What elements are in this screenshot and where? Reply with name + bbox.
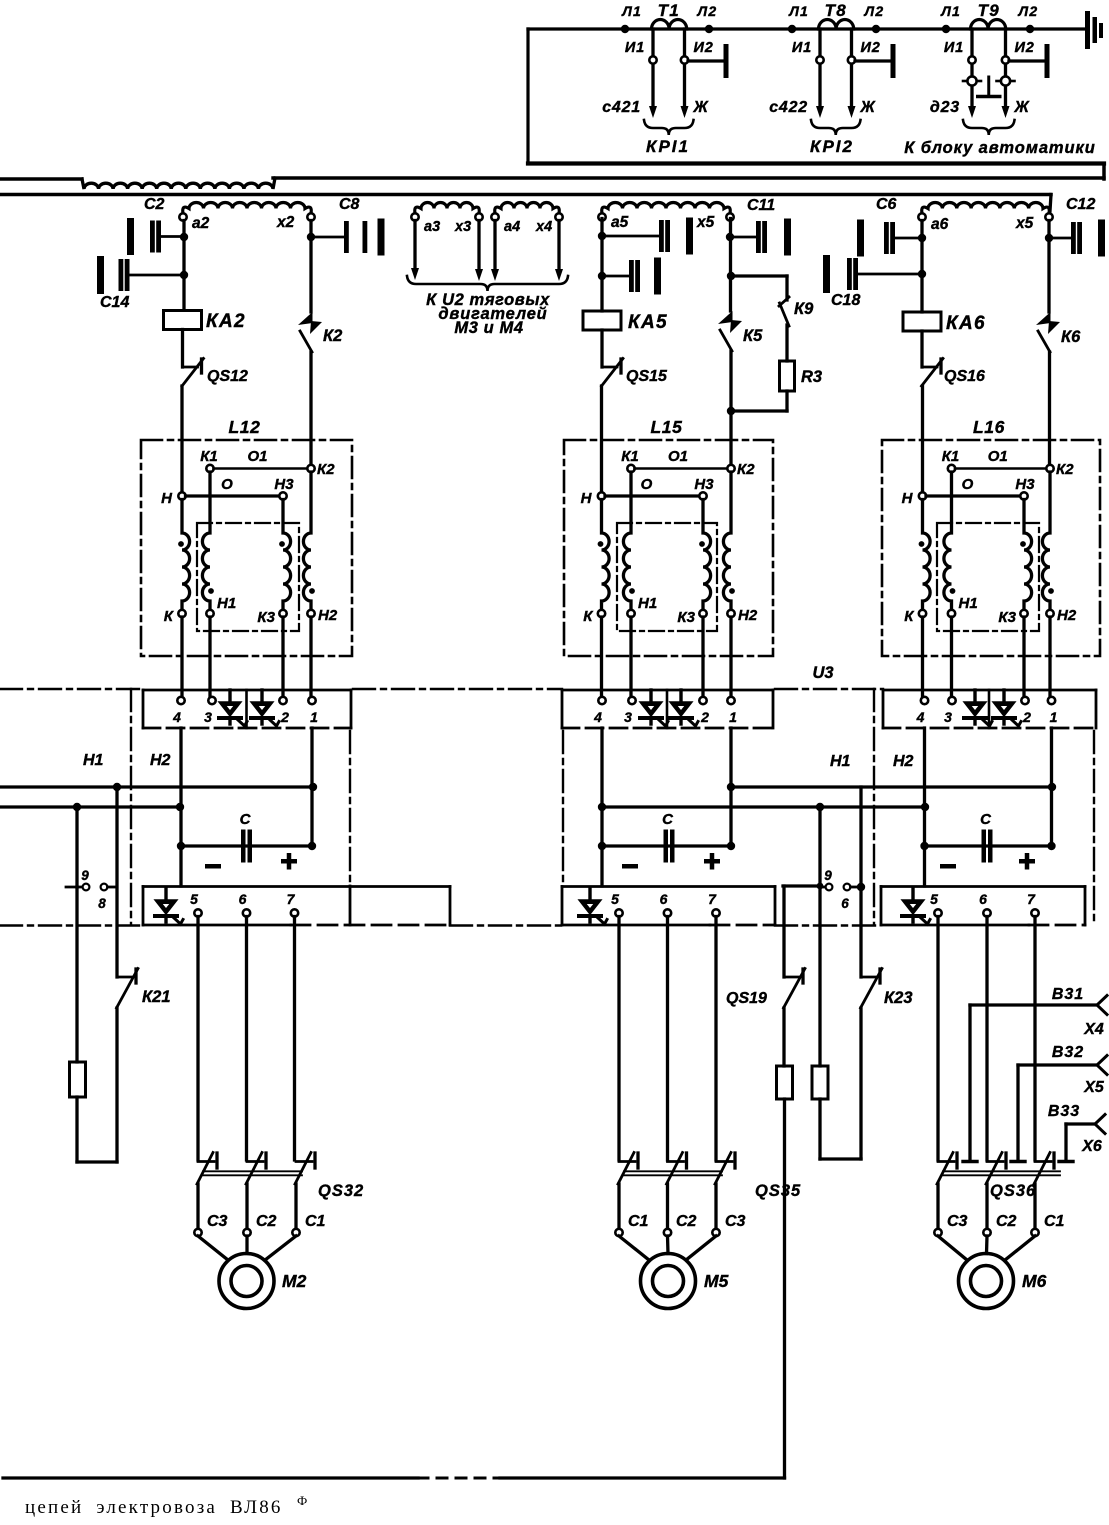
svg-text:О1: О1 [668, 448, 688, 465]
wire: resistor to loop bottom [818, 1099, 821, 1159]
svg-text:Н2: Н2 [150, 752, 171, 769]
wire: K23 down [859, 1008, 862, 1159]
wire K5 to L15 [729, 351, 732, 465]
wire K6 to L16 [1048, 352, 1051, 465]
svg-text:Н1: Н1 [83, 752, 104, 769]
wire: QS19 to resistor [782, 1008, 785, 1066]
svg-text:С12: С12 [1066, 196, 1095, 213]
boundary chain line between units 1-2 [353, 688, 562, 690]
svg-text:К2: К2 [323, 327, 342, 345]
svg-text:2: 2 [700, 709, 709, 725]
output arrows of Т1 [649, 106, 657, 118]
svg-text:а5: а5 [611, 214, 629, 231]
wire: 820 branch from minus line [818, 807, 821, 886]
winding 2 of L15 [623, 472, 631, 610]
U-left minus label [205, 864, 221, 869]
secondary lead И2 of Т9 [1004, 29, 1007, 106]
wires L16 to rectifier terminals [921, 617, 924, 697]
capacitor C18 [823, 255, 830, 293]
svg-text:КРI1: КРI1 [646, 137, 690, 156]
svg-text:х2: х2 [276, 214, 295, 231]
secondary lead И1 of Т9 [970, 29, 973, 106]
svg-text:И1: И1 [625, 40, 645, 56]
svg-text:Т9: Т9 [978, 1, 1000, 20]
svg-text:В31: В31 [1052, 986, 1084, 1003]
wire: resistor down to bottom bus [783, 1099, 786, 1478]
svg-text:С1: С1 [1044, 1213, 1065, 1230]
wire: main line to current transformers [528, 27, 1086, 30]
U3-mid bottom terminal box [562, 885, 775, 888]
svg-text:9: 9 [824, 868, 832, 883]
node Л2 of Т1 [705, 25, 713, 33]
U-left bottom terminal box [143, 885, 450, 888]
U3-right cell divider [988, 690, 991, 728]
wire x5-right down to K6 [1047, 221, 1050, 313]
U3-right bottom thyristor [911, 888, 914, 901]
svg-text:О1: О1 [247, 448, 267, 465]
U3-right terminal 1 [1048, 697, 1055, 704]
U-left thyristor-module top box [143, 689, 351, 692]
U3-mid capacitor C row [602, 844, 731, 847]
svg-text:Ж: Ж [693, 99, 710, 116]
connector pin 6 (middle) [844, 884, 851, 891]
QS35 blade 3 [716, 1160, 732, 1163]
plug contacts of T9 [967, 76, 976, 85]
svg-text:С3: С3 [947, 1213, 968, 1230]
node Л2 of Т9 [1026, 25, 1034, 33]
QS32 blade 3 [296, 1160, 312, 1163]
U3-mid cell divider [666, 690, 669, 728]
svg-text:К6: К6 [1061, 328, 1081, 346]
terminal C3 of M5 [712, 1229, 719, 1236]
wire: left edge of measuring box [526, 29, 529, 162]
svg-text:Н1: Н1 [217, 595, 236, 612]
U-left terminal 3 [208, 697, 215, 704]
svg-text:QS16: QS16 [944, 368, 985, 385]
wire: long bottom bus [3, 1476, 418, 1479]
winding 1 of L12 [182, 500, 190, 611]
current transformer Т1 [652, 20, 687, 30]
svg-text:К2: К2 [317, 461, 335, 478]
winding a4-x4 (to U2) [495, 203, 560, 214]
wire: unit2 plus to unit3 plus [731, 785, 1052, 788]
wire: left bus to unit1 minus [0, 805, 180, 808]
U3-right thyristor a [973, 690, 976, 703]
boundary chain vertical unit2 left [562, 731, 564, 886]
svg-text:3: 3 [204, 709, 212, 725]
relay coil KA6 [903, 312, 941, 331]
resistor R3 [780, 361, 795, 391]
svg-text:Л1: Л1 [621, 3, 642, 19]
terminal H2 of L16 [1046, 610, 1053, 617]
disconnector QS19 [784, 976, 799, 979]
motor М5 [641, 1254, 696, 1309]
winding 2 of L12 [202, 472, 210, 610]
boundary chain vertical unit3 right [1093, 731, 1095, 926]
svg-text:3: 3 [944, 709, 952, 725]
winding 1 of L15 [602, 500, 610, 611]
contactor K23 [861, 976, 876, 979]
svg-text:С14: С14 [100, 294, 129, 311]
U3-right terminal 2 [1021, 697, 1028, 704]
capacitor C11 [730, 236, 756, 239]
svg-text:6: 6 [660, 891, 668, 907]
capacitor C2 [127, 218, 134, 255]
svg-text:О: О [641, 476, 653, 493]
terminal H3 of L16 [1020, 492, 1027, 499]
U3-right terminal 7 [1031, 909, 1038, 916]
svg-text:1: 1 [729, 709, 737, 725]
brace under Т1 [644, 120, 694, 135]
svg-text:КРI2: КРI2 [810, 137, 854, 156]
U-left terminal 4 [177, 697, 184, 704]
svg-text:х5: х5 [696, 214, 715, 231]
svg-text:И1: И1 [792, 40, 812, 56]
node unit1 plus end [309, 783, 317, 791]
svg-text:7: 7 [1027, 891, 1036, 907]
svg-text:К23: К23 [884, 989, 913, 1007]
svg-text:И2: И2 [694, 40, 714, 56]
brace under Т9 [963, 120, 1015, 135]
node a6 junction lower [918, 270, 926, 278]
terminal H1 of L15 [627, 610, 634, 617]
connector pin 9 (middle) [820, 886, 826, 889]
QS32 blade 1 [198, 1160, 214, 1163]
winding 4 of L12 [303, 472, 311, 610]
svg-text:С2: С2 [144, 196, 165, 213]
wire: pin line down to resistor [75, 887, 78, 1062]
capacitor at a5 (upper) [602, 235, 659, 238]
wire: bottom edge of measuring box [528, 161, 1104, 165]
wire B33 to X6 [1066, 1122, 1095, 1125]
U3-mid thyristor-module top box [562, 689, 773, 692]
svg-text:К9: К9 [794, 300, 814, 318]
node a2-C14 junction [180, 271, 188, 279]
ground reference symbol between T9 leads [987, 77, 990, 95]
svg-text:8: 8 [98, 896, 106, 911]
U3-right terminal 6 [983, 909, 990, 916]
svg-text:Ж: Ж [1014, 99, 1031, 116]
winding a2-x2 [183, 203, 312, 214]
svg-text:5: 5 [611, 891, 619, 907]
QS32 blade 2 [247, 1160, 263, 1163]
svg-text:5: 5 [190, 891, 198, 907]
wire: lower bus drop to x5 terminal [1050, 195, 1051, 212]
terminal K3 of L16 [1020, 610, 1027, 617]
svg-text:5: 5 [930, 891, 938, 907]
resistor (left loop) [70, 1062, 86, 1097]
svg-text:4: 4 [593, 709, 602, 725]
U-left thyristor a [228, 690, 231, 703]
svg-text:3: 3 [624, 709, 632, 725]
current transformer Т9 [971, 20, 1006, 30]
QS35 blade 1 [619, 1160, 635, 1163]
svg-text:7: 7 [708, 891, 717, 907]
svg-text:М2: М2 [282, 1271, 307, 1291]
winding 1 of L16 [923, 500, 931, 611]
terminal C1 of M6 [1031, 1229, 1038, 1236]
wire: QS19 loop bottom [820, 1157, 861, 1160]
U-left terminal 2 [279, 697, 286, 704]
svg-text:QS19: QS19 [726, 990, 767, 1007]
wire KA5 to QS15 [600, 330, 603, 367]
U3-right terminal 4 [921, 697, 928, 704]
wire a5 down [600, 219, 603, 312]
U3-mid minus-side wire [600, 728, 603, 886]
wires to motor M2 [198, 1236, 228, 1260]
U3-right capacitor C row [925, 844, 1052, 847]
svg-text:а6: а6 [931, 216, 949, 233]
contact bar B32 [1011, 1160, 1025, 1163]
U3-mid thyristor b [679, 690, 682, 703]
U3-right minus-side wire [923, 728, 926, 886]
svg-text:Л2: Л2 [697, 3, 718, 19]
U3-mid minus label [622, 864, 638, 869]
svg-text:QS32: QS32 [318, 1182, 364, 1200]
svg-text:Н: Н [161, 490, 173, 507]
svg-text:И2: И2 [861, 40, 881, 56]
svg-text:х3: х3 [454, 219, 471, 235]
connector pin 8 (left) [101, 884, 108, 891]
svg-text:а4: а4 [504, 219, 520, 235]
secondary lead И2 of Т1 [683, 29, 686, 106]
terminal H of L15 [598, 492, 605, 499]
contact bar B31 [963, 1160, 977, 1163]
resistor (820 line) [812, 1066, 828, 1099]
terminal C2 of M2 [243, 1229, 250, 1236]
boundary chain vertical left [130, 689, 132, 925]
svg-text:Т8: Т8 [825, 1, 847, 20]
winding a5-x5 [602, 203, 731, 214]
svg-text:С2: С2 [676, 1213, 697, 1230]
svg-text:О1: О1 [988, 448, 1008, 465]
U-left terminal 5 [194, 909, 201, 916]
svg-text:а3: а3 [424, 219, 440, 235]
relay coil KA5 [583, 311, 621, 330]
wire: left bus to unit1 plus [0, 785, 313, 788]
svg-text:Н2: Н2 [318, 607, 338, 624]
boundary chain line between units 2-3 [775, 688, 883, 690]
terminal H3 of L15 [699, 492, 706, 499]
motor М6 [959, 1254, 1014, 1309]
QS35 blade 2 [668, 1160, 684, 1163]
terminal K2 of L16 [1046, 465, 1053, 472]
svg-text:С2: С2 [996, 1213, 1017, 1230]
winding 3 of L12 [283, 500, 291, 611]
wire a2 down [182, 221, 185, 311]
U3-right plus-side wire [1050, 728, 1053, 846]
node Л2 of Т8 [872, 25, 880, 33]
svg-text:Н3: Н3 [274, 476, 294, 493]
output arrows of Т9 [968, 106, 976, 118]
test terminal bar of Т1 [688, 59, 724, 62]
terminal C2 of M5 [664, 1229, 671, 1236]
svg-text:Т1: Т1 [658, 1, 680, 20]
svg-text:с422: с422 [769, 99, 808, 116]
contactor K6 [1036, 312, 1051, 325]
terminal H2 of L12 [307, 610, 314, 617]
brace under Т8 [811, 120, 861, 135]
U-left plus-side wire [310, 728, 313, 846]
U3-mid bottom thyristor [588, 888, 591, 901]
node x5 junction [726, 233, 734, 241]
terminal K2 of L12 [307, 465, 314, 472]
wires L12 to rectifier terminals [180, 617, 183, 697]
contactor K9 [779, 297, 789, 306]
QS36 linkage bar [943, 1170, 1060, 1172]
U-left bottom thyristor [164, 888, 167, 901]
wire O of L16 [926, 494, 1021, 497]
terminal K of L15 [598, 610, 605, 617]
capacitor at a5 (lower) [602, 275, 629, 278]
svg-text:С11: С11 [747, 197, 775, 214]
U-left thyristor b [260, 690, 263, 703]
svg-text:QS15: QS15 [626, 368, 668, 385]
wire QS12 to L12 [180, 386, 183, 493]
winding a6-x5 [922, 203, 1050, 214]
svg-text:М5: М5 [704, 1271, 729, 1291]
svg-text:L16: L16 [973, 417, 1005, 437]
U3-mid terminal 7 [712, 909, 719, 916]
winding 3 of L15 [703, 500, 711, 611]
wire K2 to L12 [309, 352, 312, 465]
test terminal bar of Т9 [1009, 59, 1045, 62]
terminal H1 of L12 [206, 610, 213, 617]
secondary lead И1 of Т1 [651, 29, 654, 106]
wires to motor M5 [619, 1236, 649, 1260]
ground (chassis) at right end of CT line [1085, 11, 1090, 49]
winding 2 of L16 [944, 472, 952, 610]
terminal C1 of M5 [615, 1229, 622, 1236]
svg-text:К21: К21 [142, 988, 171, 1006]
boundary chain vertical unit2 right [873, 689, 875, 925]
svg-text:7: 7 [287, 891, 296, 907]
wire: 820 line to resistor [818, 887, 821, 1066]
svg-text:1: 1 [1050, 709, 1058, 725]
U3-right thyristor-module top box [883, 689, 1096, 692]
brace under a3/a4 windings [407, 276, 568, 291]
svg-text:1: 1 [310, 709, 318, 725]
L15 inner box [617, 523, 717, 631]
svg-text:С18: С18 [831, 292, 860, 309]
svg-text:4: 4 [172, 709, 181, 725]
connector X4 fork [1097, 996, 1107, 1015]
svg-text:К1: К1 [942, 448, 960, 465]
QS35 linkage bar [624, 1170, 722, 1172]
U3-mid thyristor a [649, 690, 652, 703]
svg-text:Ж: Ж [860, 99, 877, 116]
svg-text:Н2: Н2 [1057, 607, 1077, 624]
U3-right plus label [1019, 859, 1035, 864]
svg-text:КА2: КА2 [206, 311, 246, 332]
wire B31 to X4 [970, 1003, 1097, 1006]
svg-text:Ф: Ф [297, 1493, 307, 1508]
contactor K2 [298, 312, 313, 325]
node a5 junction lower [598, 272, 606, 280]
svg-text:Л2: Л2 [1018, 3, 1039, 19]
secondary lead И2 of Т8 [850, 29, 853, 106]
svg-text:К5: К5 [743, 327, 763, 345]
connector X5 fork [1097, 1056, 1107, 1075]
capacitor C12 [1049, 237, 1071, 240]
boundary chain vertical unit1 right [349, 731, 351, 886]
terminal K2 of L15 [727, 465, 734, 472]
svg-text:К1: К1 [200, 448, 218, 465]
svg-text:Н2: Н2 [738, 607, 758, 624]
svg-text:С: С [240, 811, 252, 828]
wire KA6 to QS16 [920, 331, 923, 367]
wire: K21 down [115, 1008, 118, 1162]
svg-text:К блоку автоматики: К блоку автоматики [904, 139, 1095, 157]
disconnector QS12 [183, 366, 198, 369]
U3-mid terminal 4 [598, 697, 605, 704]
svg-text:6: 6 [841, 896, 849, 911]
terminal C3 of M6 [934, 1229, 941, 1236]
svg-text:С1: С1 [628, 1213, 649, 1230]
svg-text:С: С [662, 811, 674, 828]
svg-text:Н1: Н1 [830, 753, 851, 770]
wire O1 of L12 [214, 467, 308, 470]
boundary chain line top left [0, 688, 141, 690]
svg-text:В32: В32 [1052, 1044, 1084, 1061]
svg-text:QS35: QS35 [755, 1182, 801, 1200]
terminal H of L12 [178, 492, 185, 499]
terminal K of L12 [178, 610, 185, 617]
node K21 branch [113, 783, 121, 791]
terminal H of L16 [919, 492, 926, 499]
wire: QS19 line down [782, 886, 785, 977]
svg-text:КА6: КА6 [946, 313, 986, 334]
U-left terminal 6 [243, 909, 250, 916]
svg-text:О: О [221, 476, 233, 493]
svg-text:Л1: Л1 [940, 3, 961, 19]
node x5-right junction [1045, 234, 1053, 242]
U3-right bottom terminal box [881, 885, 1085, 888]
winding a3-x3 (to U2) [415, 203, 480, 214]
wire: loop bottom [77, 1160, 117, 1163]
svg-text:И2: И2 [1015, 40, 1035, 56]
L12 inner box [197, 523, 299, 631]
node K9 branch top [727, 272, 735, 280]
resistor (QS19 line) [777, 1066, 793, 1099]
wire a6 down [920, 221, 923, 313]
winding 4 of L15 [723, 472, 731, 610]
svg-text:R3: R3 [801, 368, 822, 386]
U3-right motor leads below [936, 917, 939, 1161]
svg-text:Н: Н [581, 490, 593, 507]
smoothing reactor L12 outer box [141, 440, 352, 656]
wire: branch down from 787 line [115, 787, 118, 977]
bus wire with transformer winding (upper) [0, 177, 82, 180]
svg-text:К3: К3 [257, 609, 275, 626]
wire O of L12 [186, 494, 280, 497]
svg-text:Н3: Н3 [1015, 476, 1035, 493]
terminal K3 of L12 [279, 610, 286, 617]
smoothing reactor L16 outer box [882, 440, 1100, 656]
svg-text:Л1: Л1 [788, 3, 809, 19]
U3-mid terminal 1 [727, 697, 734, 704]
terminal H3 of L12 [279, 492, 286, 499]
svg-text:4: 4 [916, 709, 925, 725]
U-left motor leads below [196, 917, 199, 1161]
connector X6 fork [1095, 1115, 1105, 1134]
svg-text:QS12: QS12 [207, 368, 248, 385]
node K9-R3 rejoin [727, 407, 735, 415]
U3-mid terminal 5 [615, 909, 622, 916]
svg-text:х4: х4 [535, 219, 552, 235]
terminal C3 of M2 [194, 1229, 201, 1236]
capacitor C14 [97, 256, 104, 294]
